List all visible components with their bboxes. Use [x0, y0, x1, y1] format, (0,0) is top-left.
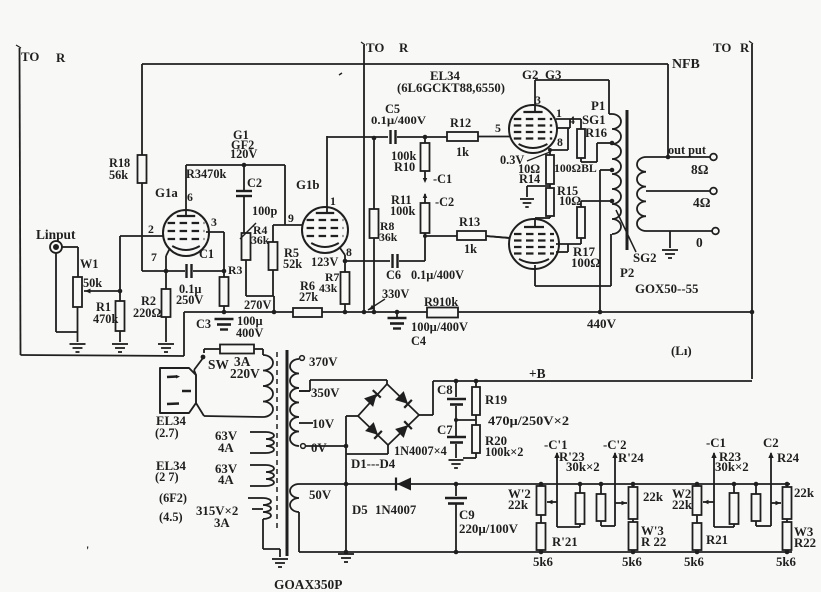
- svg-text:R22: R22: [794, 536, 816, 550]
- svg-text:4Ω: 4Ω: [693, 195, 711, 210]
- svg-text:1N4007: 1N4007: [375, 503, 417, 517]
- svg-text:1k: 1k: [456, 145, 469, 159]
- svg-text:R'24: R'24: [618, 451, 644, 465]
- svg-text:R: R: [56, 51, 66, 65]
- svg-text:-C2: -C2: [435, 195, 454, 209]
- svg-text:C7: C7: [437, 423, 453, 437]
- svg-text:(2 7): (2 7): [155, 470, 179, 484]
- svg-text:36k: 36k: [379, 231, 398, 244]
- svg-text:100ΩBL: 100ΩBL: [554, 162, 597, 175]
- svg-text:R: R: [740, 41, 750, 55]
- svg-text:22k: 22k: [672, 498, 693, 512]
- svg-text:5k6: 5k6: [776, 555, 797, 569]
- svg-text:0V: 0V: [311, 441, 327, 455]
- svg-text:100k×2: 100k×2: [485, 445, 523, 459]
- svg-text:5k6: 5k6: [622, 555, 643, 569]
- svg-text:7: 7: [151, 251, 157, 264]
- svg-text:R910k: R910k: [424, 295, 458, 309]
- svg-text:250V: 250V: [176, 293, 203, 307]
- svg-text:3: 3: [535, 94, 541, 107]
- svg-text:4: 4: [569, 114, 575, 127]
- svg-text:SG1: SG1: [582, 113, 606, 127]
- svg-text:220µ/100V: 220µ/100V: [459, 522, 518, 536]
- svg-text:C6: C6: [386, 268, 401, 282]
- svg-text:10V: 10V: [312, 417, 335, 431]
- svg-text:C2: C2: [763, 436, 779, 450]
- svg-text:50k: 50k: [83, 276, 102, 290]
- svg-text:(Lı): (Lı): [671, 344, 692, 358]
- svg-text:6: 6: [187, 191, 193, 204]
- svg-text:9: 9: [288, 212, 294, 225]
- svg-text:1: 1: [330, 195, 336, 208]
- svg-text:TO: TO: [366, 41, 384, 55]
- svg-text:(6F2): (6F2): [159, 491, 187, 505]
- svg-text:270V: 270V: [244, 298, 271, 312]
- svg-text:0: 0: [696, 235, 703, 250]
- svg-text:-C1: -C1: [433, 172, 452, 186]
- svg-text:220Ω: 220Ω: [133, 306, 161, 320]
- svg-text:R3: R3: [228, 264, 242, 277]
- svg-text:2: 2: [148, 223, 154, 236]
- svg-text:R16: R16: [585, 126, 608, 140]
- svg-text:440V: 440V: [587, 317, 616, 331]
- svg-text:(6L6GCKT88,6550): (6L6GCKT88,6550): [397, 81, 505, 95]
- svg-text:GOX50--55: GOX50--55: [635, 282, 698, 296]
- svg-text:R: R: [399, 41, 409, 55]
- svg-text:27k: 27k: [299, 290, 318, 304]
- svg-text:22k: 22k: [794, 486, 815, 500]
- svg-text:D5: D5: [352, 503, 368, 517]
- svg-text:D1---D4: D1---D4: [351, 457, 396, 471]
- svg-text:Linput: Linput: [36, 227, 76, 242]
- svg-text:R24: R24: [777, 451, 800, 465]
- svg-text:R14: R14: [519, 172, 540, 186]
- svg-text:330V: 330V: [382, 287, 409, 301]
- svg-text:10Ω: 10Ω: [559, 194, 581, 208]
- svg-text:R19: R19: [485, 393, 507, 407]
- svg-text:R10: R10: [394, 160, 415, 174]
- svg-text:100k: 100k: [390, 204, 415, 218]
- svg-text:R3470k: R3470k: [186, 167, 226, 181]
- svg-text:50V: 50V: [309, 488, 332, 502]
- svg-text:out put: out put: [668, 143, 707, 157]
- svg-text:C4: C4: [411, 334, 426, 348]
- svg-text:43k: 43k: [319, 282, 338, 295]
- svg-text:SG2: SG2: [633, 251, 657, 265]
- svg-text:-C1: -C1: [706, 436, 726, 450]
- svg-text:1: 1: [556, 107, 562, 120]
- svg-text:': ': [86, 544, 89, 557]
- svg-text:0.1µ/400V: 0.1µ/400V: [371, 114, 427, 127]
- svg-text:P1: P1: [591, 99, 605, 113]
- svg-text:470k: 470k: [93, 312, 118, 326]
- svg-text:R'21: R'21: [552, 535, 578, 549]
- svg-text:220V: 220V: [230, 366, 260, 381]
- svg-text:W1: W1: [80, 257, 98, 271]
- svg-text:C8: C8: [437, 383, 453, 397]
- svg-text:100µ/400V: 100µ/400V: [411, 320, 468, 334]
- svg-text:8Ω: 8Ω: [691, 162, 709, 177]
- svg-text:TO: TO: [713, 41, 731, 55]
- svg-text:C9: C9: [459, 508, 475, 522]
- svg-text:1N4007×4: 1N4007×4: [394, 444, 447, 458]
- svg-text:36k: 36k: [251, 234, 270, 247]
- svg-text:1k: 1k: [464, 242, 477, 256]
- svg-text:+B: +B: [529, 366, 546, 381]
- svg-text:4A: 4A: [218, 441, 234, 455]
- svg-text:0.1µ/400V: 0.1µ/400V: [411, 268, 464, 282]
- svg-text:5k6: 5k6: [533, 555, 554, 569]
- svg-text:52k: 52k: [283, 257, 302, 271]
- svg-text:400V: 400V: [236, 326, 263, 340]
- svg-text:4A: 4A: [218, 473, 234, 487]
- svg-text:R13: R13: [459, 215, 480, 229]
- svg-text:470µ/250V×2: 470µ/250V×2: [488, 414, 569, 428]
- svg-text:22k: 22k: [508, 498, 529, 512]
- svg-text:C3: C3: [196, 317, 211, 331]
- svg-text:5: 5: [495, 122, 501, 135]
- svg-text:R12: R12: [450, 116, 471, 130]
- svg-text:C1: C1: [199, 247, 214, 261]
- svg-text:R 22: R 22: [641, 535, 666, 549]
- svg-text:8: 8: [557, 136, 563, 149]
- svg-text:100Ω: 100Ω: [571, 256, 601, 270]
- svg-text:22k: 22k: [643, 490, 664, 504]
- svg-text:3: 3: [211, 216, 217, 229]
- svg-text:C2: C2: [247, 176, 262, 190]
- svg-text:(2.7): (2.7): [155, 426, 179, 440]
- svg-text:120V: 120V: [230, 147, 257, 161]
- svg-text:123V: 123V: [311, 255, 338, 269]
- svg-text:8: 8: [346, 246, 352, 259]
- svg-text:R21: R21: [706, 533, 728, 547]
- svg-text:3A: 3A: [214, 516, 230, 530]
- svg-text:56k: 56k: [109, 168, 128, 182]
- svg-text:P2: P2: [620, 266, 634, 280]
- svg-text:5k6: 5k6: [684, 555, 705, 569]
- svg-text:30k×2: 30k×2: [566, 460, 600, 474]
- svg-text:370V: 370V: [309, 355, 338, 369]
- svg-text:-C'2: -C'2: [603, 438, 627, 452]
- svg-text:(4.5): (4.5): [159, 510, 183, 524]
- svg-text:G1b: G1b: [296, 178, 320, 192]
- svg-text:G1a: G1a: [155, 186, 178, 200]
- svg-text:30k×2: 30k×2: [715, 460, 749, 474]
- svg-text:GOAX350P: GOAX350P: [274, 577, 342, 592]
- svg-text:TO: TO: [21, 50, 39, 64]
- svg-text:SW: SW: [208, 357, 229, 372]
- svg-text:NFB: NFB: [672, 57, 700, 72]
- svg-text:100p: 100p: [252, 204, 277, 218]
- svg-text:350V: 350V: [311, 386, 340, 400]
